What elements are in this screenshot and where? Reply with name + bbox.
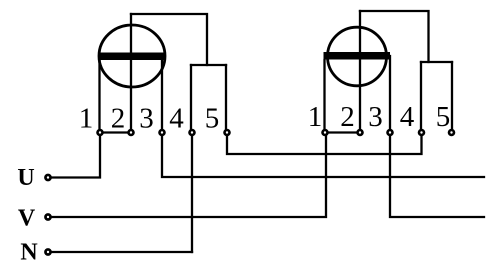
- svg-text:4: 4: [169, 103, 184, 135]
- svg-text:5: 5: [205, 103, 220, 135]
- svg-text:V: V: [18, 206, 36, 232]
- svg-text:5: 5: [436, 101, 451, 133]
- svg-text:U: U: [17, 165, 34, 191]
- svg-text:N: N: [20, 240, 38, 266]
- svg-text:2: 2: [111, 103, 126, 135]
- svg-text:3: 3: [139, 103, 154, 135]
- svg-text:3: 3: [368, 101, 383, 133]
- svg-text:1: 1: [79, 103, 94, 135]
- svg-text:2: 2: [340, 101, 355, 133]
- svg-text:4: 4: [400, 101, 415, 133]
- svg-text:1: 1: [308, 101, 323, 133]
